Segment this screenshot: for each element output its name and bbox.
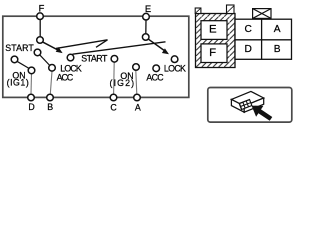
terminal A: [134, 94, 141, 101]
cavity F: [201, 44, 227, 63]
housing tab 1: [195, 8, 201, 14]
svg-text:START: START: [81, 53, 108, 63]
left ON top contact: [34, 49, 41, 56]
left pivot: [37, 37, 44, 44]
svg-text:B: B: [274, 44, 281, 55]
wire contact to B: [50, 71, 52, 94]
pointer arrow: [252, 106, 273, 121]
svg-text:(IG2): (IG2): [110, 78, 135, 88]
wire F stem: [39, 19, 41, 36]
right ON contact: [133, 64, 140, 71]
terminal B: [47, 94, 54, 101]
crossed lock tab box: [253, 9, 271, 19]
ignition switch box: [3, 16, 189, 97]
cavity E: [201, 21, 227, 40]
wire E stem: [145, 20, 147, 34]
svg-text:A: A: [274, 24, 281, 35]
right wiper arm: [148, 39, 166, 52]
connector body left face: [231, 99, 244, 112]
left LOCK contact: [67, 54, 74, 61]
mechanical link zigzag: [56, 40, 166, 54]
terminal E: [143, 13, 150, 20]
housing tab 2: [227, 5, 235, 14]
right START contact: [111, 56, 118, 63]
svg-text:F: F: [209, 47, 216, 59]
wire contact to A: [136, 70, 137, 94]
right ACC contact: [153, 65, 160, 72]
left ACC contact: [49, 65, 56, 72]
svg-text:B: B: [47, 102, 53, 112]
wire contact to C: [113, 62, 116, 94]
terminal F: [37, 13, 44, 20]
pin grid v divider: [261, 19, 263, 59]
left START contact: [11, 56, 18, 63]
svg-text:C: C: [245, 24, 252, 35]
left ON bar: [40, 55, 50, 65]
svg-text:D: D: [28, 102, 34, 112]
svg-text:ACC: ACC: [146, 73, 164, 83]
terminal D: [28, 94, 35, 101]
right arm arrowhead: [162, 48, 169, 54]
svg-text:LOCK: LOCK: [164, 64, 186, 74]
pin grid h divider: [235, 39, 292, 41]
svg-text:START: START: [5, 43, 34, 53]
right pivot: [142, 34, 149, 41]
left START lower contact: [28, 67, 35, 74]
left wiper arm: [42, 42, 60, 51]
connector body right face: [244, 98, 264, 112]
wire contact to D: [30, 74, 33, 94]
svg-text:C: C: [110, 103, 117, 113]
connector socket detail: [238, 99, 252, 110]
inset box: [208, 88, 292, 123]
connector body top face: [231, 91, 263, 106]
pin grid: [235, 19, 292, 59]
connector housing hatched: [196, 14, 236, 68]
svg-text:E: E: [145, 3, 151, 14]
left START bar: [17, 61, 29, 68]
svg-text:ACC: ACC: [57, 73, 74, 83]
svg-text:A: A: [135, 103, 141, 113]
terminal C: [110, 94, 117, 101]
svg-text:(IG1): (IG1): [7, 78, 29, 88]
svg-text:F: F: [39, 2, 45, 13]
svg-text:E: E: [209, 24, 217, 36]
left arm arrowhead: [56, 47, 63, 53]
right LOCK contact: [171, 56, 178, 63]
svg-text:D: D: [245, 44, 252, 55]
